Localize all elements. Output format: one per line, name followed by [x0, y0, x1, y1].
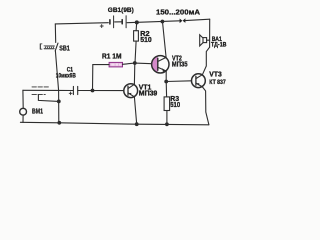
- wire left rail lower (SB1 to bottom rail): [55, 51, 58, 123]
- wire VT3 collector riser: [202, 47, 209, 74]
- svg-text:VT3: VT3: [209, 71, 222, 78]
- wire right rail upper: [209, 19, 211, 47]
- switch SB1: [40, 43, 58, 51]
- wire VT2 emitter drop: [165, 71, 167, 97]
- svg-text:МП39: МП39: [139, 90, 158, 97]
- svg-text:ТД-1В: ТД-1В: [211, 41, 227, 48]
- svg-text:150...200мА: 150...200мА: [156, 8, 201, 17]
- wire R2 top leg: [135, 22, 138, 30]
- wire mic top riser: [22, 90, 24, 108]
- transistor VT3: [192, 74, 206, 88]
- svg-text:GB1(9В): GB1(9В): [108, 7, 134, 14]
- transistor VT2 (highlighted): [152, 56, 169, 73]
- wire top rail right segment: [185, 19, 210, 20]
- node R2 top junction: [135, 20, 139, 24]
- wire VT1 emitter drop: [134, 97, 136, 124]
- wire bottom rail: [20, 122, 209, 125]
- node VT3 base junction: [164, 80, 168, 84]
- wire R2 bottom leg: [135, 41, 136, 63]
- shield dashed top: [32, 86, 49, 88]
- wire mic signal to C1: [23, 89, 73, 91]
- node VT1 emitter bottom junction: [135, 122, 139, 126]
- svg-text:10мкх6В: 10мкх6В: [56, 72, 76, 79]
- resistor R3: [164, 97, 170, 111]
- battery plus mark: [100, 25, 103, 28]
- node left rail bottom junction: [57, 121, 61, 125]
- svg-text:510: 510: [170, 100, 180, 109]
- wire top rail left segment: [55, 23, 108, 24]
- node R3 bottom junction: [165, 122, 169, 126]
- svg-text:ВМ1: ВМ1: [32, 109, 43, 116]
- node R1 leg junction: [91, 89, 95, 93]
- transistor VT1: [124, 84, 138, 98]
- node VT2 collector junction: [161, 20, 165, 24]
- current break symbol (bowtie): [180, 18, 186, 23]
- C1 plus mark: [69, 92, 72, 95]
- svg-text:R1 1М: R1 1М: [102, 52, 122, 61]
- wire top rail mid segment: [127, 21, 180, 23]
- svg-text:КТ 837: КТ 837: [209, 79, 226, 86]
- wire left rail upper (corner to SB1): [54, 24, 56, 43]
- wire R1 left leg: [93, 65, 110, 91]
- svg-text:510: 510: [140, 35, 152, 44]
- wire VT1 collector riser: [133, 63, 135, 84]
- wire C1 to VT1 base: [78, 90, 124, 92]
- microphone BM1: [20, 108, 27, 115]
- wire mic bottom drop: [22, 115, 24, 122]
- wire R3 bottom leg: [166, 111, 168, 125]
- battery GB1: [110, 16, 126, 28]
- shield dashed bottom: [32, 94, 45, 96]
- wire VT3 base: [166, 80, 191, 83]
- svg-text:SB1: SB1: [59, 43, 70, 52]
- speaker BA1: [200, 35, 210, 46]
- wire R1 right to VT2 base: [123, 63, 152, 64]
- resistor R2: [134, 31, 139, 41]
- resistor R1 (highlighted): [109, 62, 122, 67]
- wire VT3 emitter drop: [202, 87, 209, 125]
- wire VT2 collector riser: [163, 22, 167, 58]
- node VT1 collector junction: [133, 61, 137, 65]
- node shield junction: [57, 100, 61, 104]
- wire shield to rail: [38, 95, 58, 102]
- svg-text:МП35: МП35: [172, 62, 188, 69]
- capacitor C1: [73, 86, 77, 94]
